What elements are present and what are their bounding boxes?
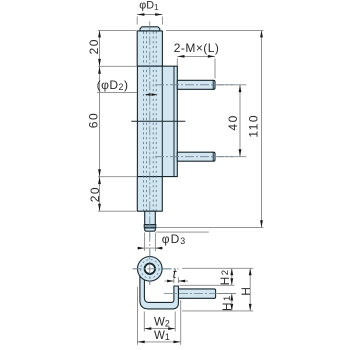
svg-text:t: t — [173, 266, 178, 281]
svg-text:20: 20 — [87, 38, 101, 54]
svg-text:110: 110 — [247, 114, 261, 138]
svg-text:W2: W2 — [154, 316, 170, 328]
svg-text:W1: W1 — [154, 330, 170, 342]
svg-text:H2: H2 — [218, 268, 232, 285]
svg-text:H: H — [239, 286, 253, 296]
svg-text:(φD2): (φD2) — [97, 78, 129, 92]
svg-text:20: 20 — [88, 186, 102, 202]
svg-text:60: 60 — [87, 112, 101, 128]
svg-text:φD3: φD3 — [162, 232, 186, 246]
svg-text:2-M×(L): 2-M×(L) — [174, 41, 220, 55]
svg-text:H1: H1 — [220, 294, 234, 311]
svg-text:φD1: φD1 — [139, 0, 159, 12]
svg-text:40: 40 — [226, 114, 240, 130]
